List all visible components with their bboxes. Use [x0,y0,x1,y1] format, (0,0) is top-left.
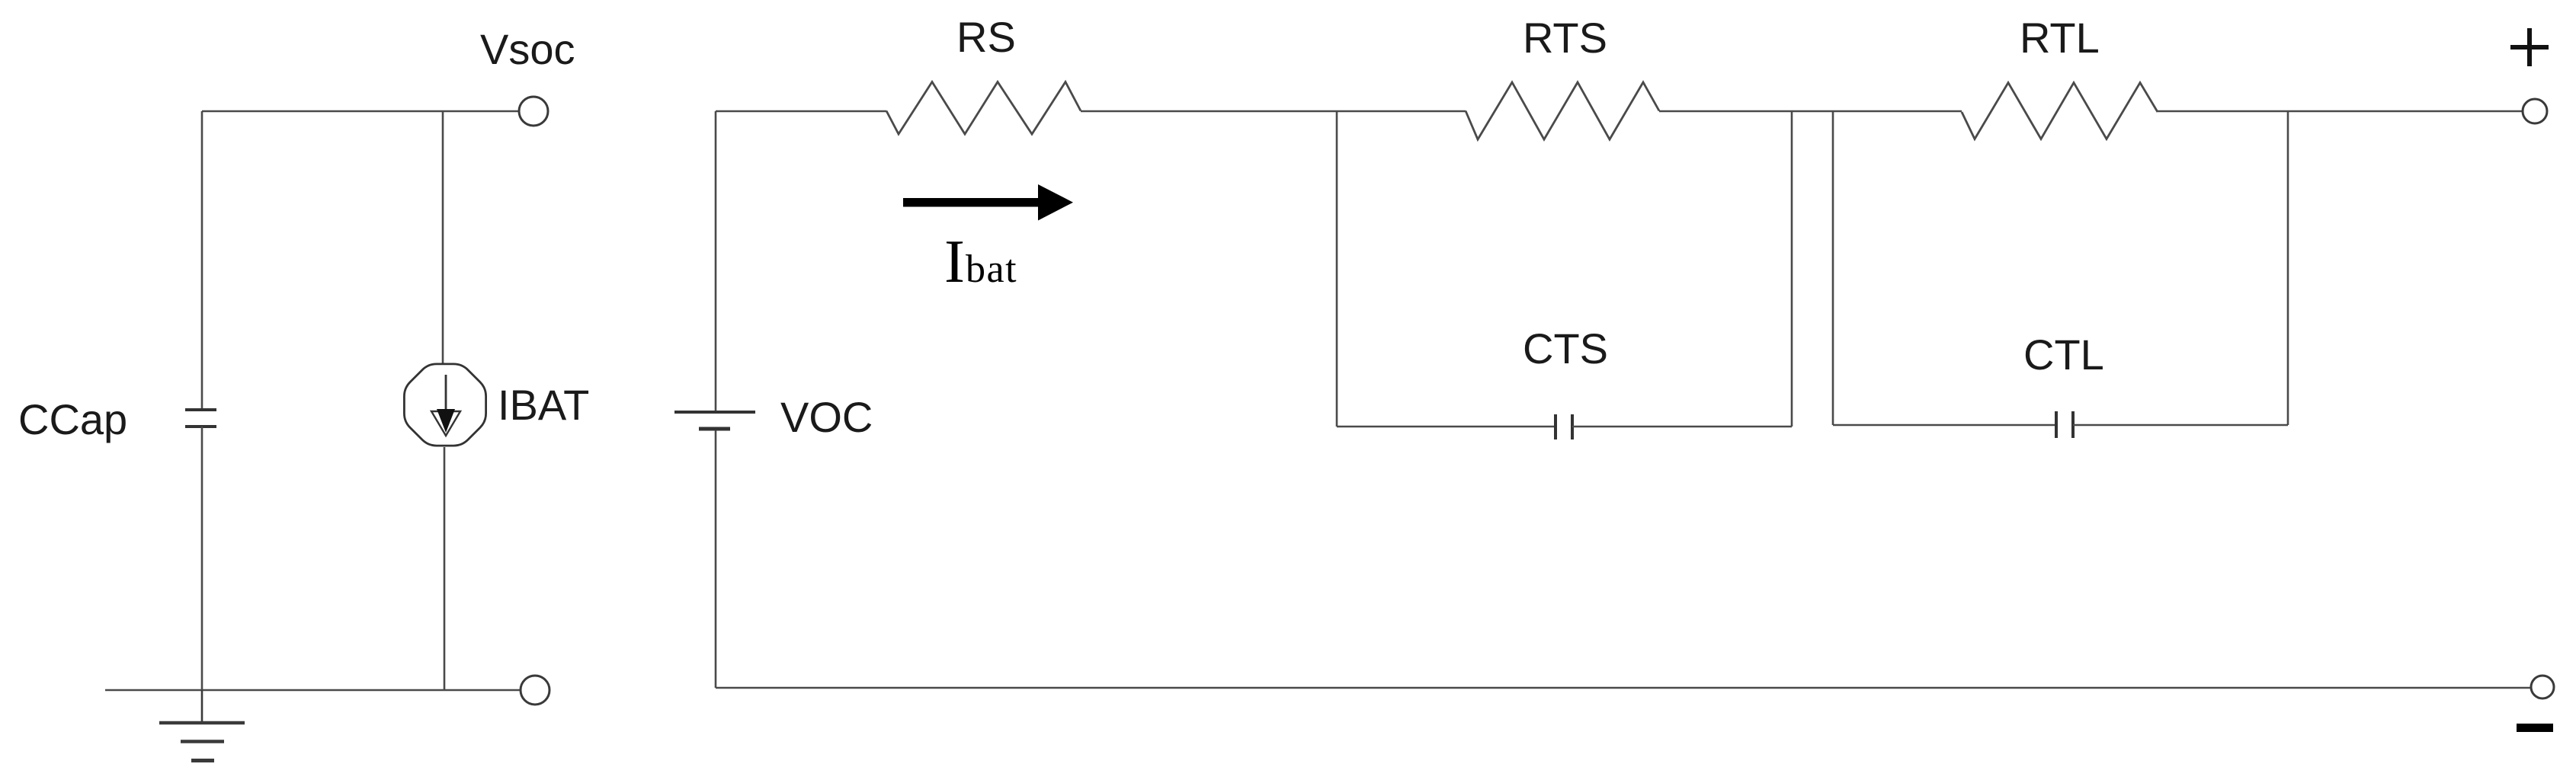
svg-text:VOC: VOC [780,393,873,441]
wire top left circuit [202,110,519,113]
svg-text:RS: RS [956,13,1016,61]
resistor RTL [1962,83,2158,139]
label minus sign [2517,724,2553,732]
voltage source VOC [674,412,755,429]
wire VOC branch lower [715,430,717,688]
resistor RTS [1466,82,1659,139]
wire RTS box bottom right [1572,426,1792,428]
wire RS to RTS [1081,110,1466,113]
svg-text:CCap: CCap [18,395,127,443]
svg-text:I: I [944,227,965,296]
node plus terminal [2523,99,2547,123]
node Vsoc terminal [519,97,548,126]
capacitor CCap [185,410,216,427]
svg-text:CTS: CTS [1523,324,1608,372]
wire IBAT branch upper [442,111,444,363]
wire RTS box bottom left [1337,426,1556,428]
svg-text:RTS: RTS [1523,14,1607,62]
label Ibat [944,227,1017,296]
arrow Ibat current direction [903,184,1073,221]
svg-text:Vsoc: Vsoc [480,25,575,73]
wire RTL box left vertical [1832,111,1834,425]
wire RTS box right vertical [1791,111,1793,427]
wire IBAT branch lower [444,447,446,690]
wire VOC branch upper [715,111,717,411]
wire top from VOC to RS [716,110,886,113]
wire RTL box right vertical [2287,111,2289,425]
ground [159,690,245,761]
svg-text:CTL: CTL [2023,331,2104,379]
wire RTL to plus terminal [2158,110,2523,113]
svg-text:bat: bat [966,248,1017,291]
wire bottom left circuit [105,689,521,692]
node left bottom terminal [521,676,549,705]
current source IBAT [404,364,485,446]
wire RTS box left vertical [1336,111,1338,427]
svg-text:RTL: RTL [2020,14,2100,62]
wire left vertical lower [201,427,203,690]
resistor RS [886,82,1081,135]
node minus terminal [2531,676,2554,698]
capacitor CTS [1556,414,1572,439]
wire bottom main circuit [716,687,2531,689]
wire RTL box bottom right [2073,424,2288,427]
wire RTL box bottom left [1833,424,2056,427]
label plus sign [2510,28,2549,66]
capacitor CTL [2056,411,2073,438]
wire left vertical upper [201,111,203,410]
wire RTS to RTL [1659,110,1962,113]
svg-text:IBAT: IBAT [498,381,589,429]
